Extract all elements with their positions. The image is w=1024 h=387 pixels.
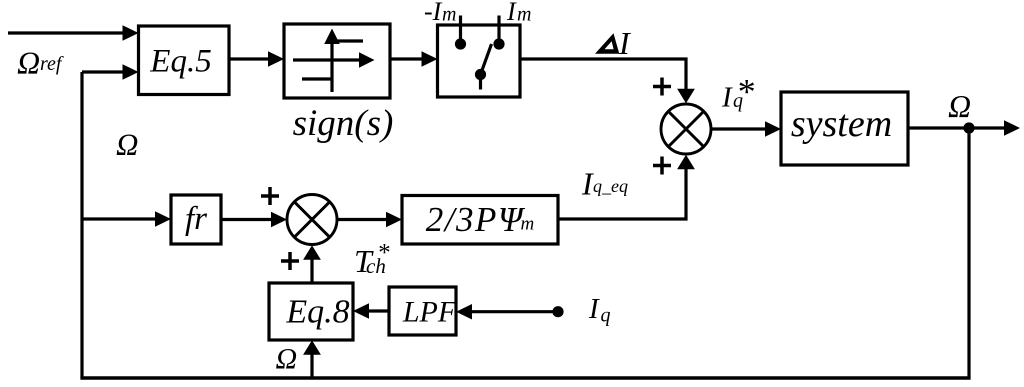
switch lever and pole — [475, 44, 492, 90]
svg-text:2/3PΨm: 2/3PΨm — [426, 200, 534, 239]
wire Omega from bottom feedback into Eq.8 — [303, 340, 321, 378]
label Omega (output) — [948, 88, 971, 124]
svg-text:*: * — [377, 240, 390, 267]
label Omega (left feedback) — [116, 126, 138, 161]
label Tch* — [354, 240, 390, 280]
label Iq — [588, 293, 611, 327]
svg-text:ref: ref — [40, 53, 64, 75]
wire Iq input to LPF with node dot — [456, 304, 564, 320]
label Omega (bottom) — [276, 343, 298, 376]
svg-text:m: m — [442, 4, 456, 26]
svg-text:Ω: Ω — [948, 88, 971, 124]
svg-text:*: * — [736, 72, 754, 112]
svg-text:Ω: Ω — [116, 126, 138, 161]
block Eq.8 — [269, 283, 353, 340]
svg-text:I: I — [588, 293, 600, 325]
plus sign top input of S1 — [653, 78, 671, 96]
wire 2/3P-Psi-m output to S1 bottom input — [558, 155, 695, 219]
svg-text:Ω: Ω — [276, 343, 298, 376]
svg-text:-I: -I — [424, 0, 443, 26]
wire switch to summing junction S1 — [520, 59, 695, 103]
svg-text:q_eq: q_eq — [593, 176, 628, 196]
wire S2 to 2/3P-Psi-m block — [337, 212, 402, 228]
label -Im — [424, 0, 456, 26]
svg-text:I: I — [721, 82, 733, 114]
block switch — [438, 25, 521, 97]
svg-text:system: system — [791, 103, 892, 145]
svg-text:Eq.8: Eq.8 — [285, 294, 349, 331]
wire right feedback vertical — [967, 128, 970, 378]
svg-text:m: m — [517, 4, 531, 26]
wire Eq.5 to sign block — [229, 51, 284, 67]
wire feedback branch to fr — [82, 211, 171, 227]
label sign(s) — [293, 103, 394, 144]
wire system output with node and arrow — [908, 120, 1020, 136]
block sign function — [284, 24, 390, 98]
switch contact Im (stub and dot) — [493, 16, 504, 50]
wire bottom feedback horizontal — [80, 376, 970, 380]
wire sign block to switch block — [390, 51, 438, 67]
plus sign left input of S2 — [261, 187, 279, 205]
wire Eq.8 to S2 bottom input — [303, 245, 321, 283]
svg-text:I: I — [506, 0, 517, 26]
block system — [781, 92, 908, 165]
wire LPF to Eq.8 — [353, 303, 389, 319]
svg-text:fr: fr — [185, 201, 207, 237]
label Iq_eq — [581, 165, 628, 201]
svg-text:I: I — [618, 25, 631, 61]
svg-text:q: q — [601, 305, 611, 327]
plus sign bottom input of S1 — [653, 157, 671, 175]
wire Omega feedback into Eq.5 second input — [82, 64, 139, 80]
wire left feedback vertical — [80, 72, 83, 378]
svg-text:Ω: Ω — [17, 44, 40, 80]
label Omega_ref — [17, 44, 64, 80]
svg-text:Eq.5: Eq.5 — [149, 44, 211, 80]
plus sign bottom input of S2 — [281, 252, 299, 270]
label Delta I — [595, 25, 631, 61]
wire fr to summing junction S2 — [221, 212, 287, 228]
svg-text:sign(s): sign(s) — [293, 103, 394, 144]
block Eq.5 — [139, 26, 230, 95]
block 2/3P-Psi-m — [402, 196, 558, 245]
label Iq* — [721, 72, 754, 114]
svg-text:LPF: LPF — [402, 296, 457, 329]
wire input Omega_ref arrow into Eq.5 — [8, 25, 139, 41]
sign function horizontal axis — [293, 52, 375, 68]
block LPF — [389, 287, 457, 335]
summing junction S1 — [661, 104, 711, 154]
sign function vertical axis — [324, 29, 340, 93]
block fr — [171, 195, 221, 244]
switch contact -Im (stub and dot) — [455, 16, 466, 50]
sign function lower step — [302, 77, 332, 80]
label Im — [506, 0, 531, 26]
sign function upper step — [332, 39, 363, 42]
wire S1 to system — [711, 121, 781, 137]
summing junction S2 — [287, 195, 337, 245]
